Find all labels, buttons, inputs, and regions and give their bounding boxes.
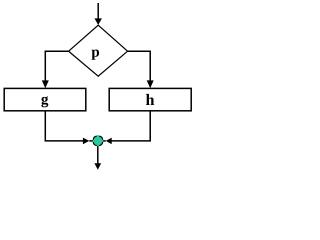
wire: stub left of junction [89,140,93,142]
wire: junction down to exit [97,146,99,164]
arrowhead right into junction [83,138,89,145]
arrowhead into g [42,80,49,88]
junction node nub right [101,140,103,142]
junction node circle [93,136,102,145]
junction node nub left [93,140,95,142]
arrowhead exit [94,163,101,170]
decision diamond p [69,25,128,76]
label g [41,96,48,107]
junction node nub bottom [97,144,99,146]
process box g [4,88,86,110]
process box h [109,88,191,110]
wire: stub right of junction [103,140,106,142]
label p [92,50,100,60]
arrowhead into decision p [95,18,102,25]
wire: diamond left to g [45,51,68,81]
arrowhead into h [147,80,154,88]
wire: g down and right to junction [45,111,83,141]
wire: diamond right to h [128,51,151,81]
wire: entry line into decision p [97,3,99,20]
arrowhead left into junction [106,138,112,145]
label h [146,94,154,105]
wire: h down and left to junction [111,111,150,141]
junction node nub top [97,135,99,137]
